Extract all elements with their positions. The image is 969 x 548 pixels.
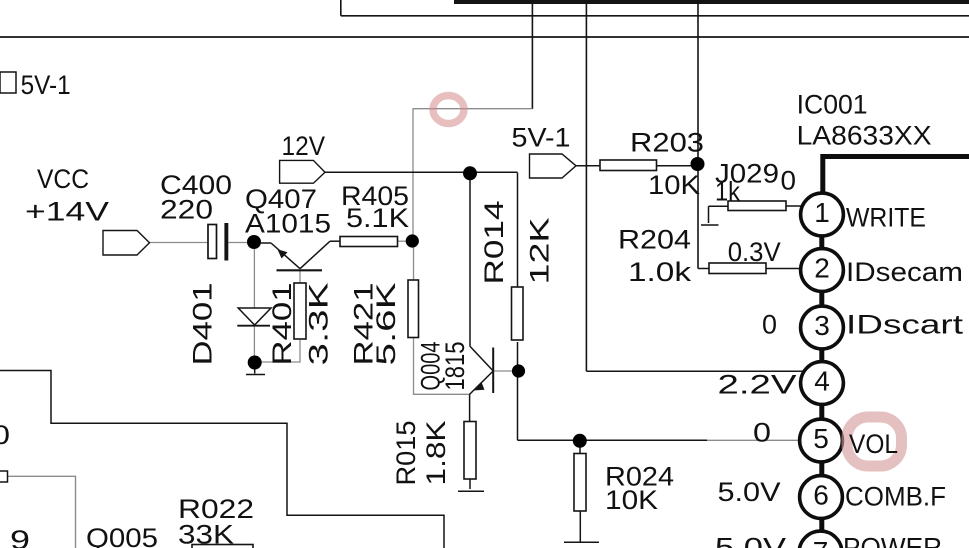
svg-text:5V-1: 5V-1 xyxy=(512,123,571,153)
svg-text:IDscart: IDscart xyxy=(846,310,964,340)
svg-text:0: 0 xyxy=(781,166,797,196)
svg-text:3.3K: 3.3K xyxy=(304,283,334,366)
svg-text:5.0V: 5.0V xyxy=(718,477,781,507)
svg-text:Q005: Q005 xyxy=(86,523,158,548)
svg-text:6: 6 xyxy=(813,480,829,511)
svg-text:A1015: A1015 xyxy=(245,209,331,239)
svg-text:POWER: POWER xyxy=(843,533,942,548)
svg-text:1: 1 xyxy=(814,197,830,228)
svg-text:5.0V: 5.0V xyxy=(715,533,786,548)
svg-text:1k: 1k xyxy=(715,177,740,207)
svg-text:LA8633XX: LA8633XX xyxy=(797,121,932,151)
svg-text:2.2V: 2.2V xyxy=(718,370,797,400)
svg-text:+14V: +14V xyxy=(25,197,109,227)
svg-text:R015: R015 xyxy=(391,421,421,486)
svg-text:R203: R203 xyxy=(630,128,704,158)
svg-text:33K: 33K xyxy=(178,520,234,548)
svg-text:D401: D401 xyxy=(188,283,218,366)
svg-text:5.1K: 5.1K xyxy=(346,203,409,233)
svg-text:4: 4 xyxy=(814,366,830,397)
svg-text:R014: R014 xyxy=(479,201,509,285)
svg-text:1.8K: 1.8K xyxy=(421,421,451,486)
svg-text:0: 0 xyxy=(753,418,771,448)
svg-text:0: 0 xyxy=(0,420,10,450)
svg-text:10K: 10K xyxy=(648,170,700,200)
svg-text:VOL: VOL xyxy=(849,429,898,459)
svg-text:0: 0 xyxy=(762,310,777,340)
svg-text:WRITE: WRITE xyxy=(846,203,926,233)
svg-text:2: 2 xyxy=(814,253,830,284)
svg-text:5V-1: 5V-1 xyxy=(21,70,71,100)
svg-text:R204: R204 xyxy=(618,225,691,255)
svg-text:10K: 10K xyxy=(605,485,658,515)
svg-text:R401: R401 xyxy=(267,283,297,366)
svg-text:5.6K: 5.6K xyxy=(371,283,401,366)
svg-text:1.0k: 1.0k xyxy=(628,257,692,287)
svg-text:12V: 12V xyxy=(282,131,326,161)
svg-text:3: 3 xyxy=(814,310,830,341)
svg-text:0.3V: 0.3V xyxy=(728,237,781,267)
svg-text:IC001: IC001 xyxy=(797,90,868,120)
svg-text:9: 9 xyxy=(10,525,30,548)
svg-text:VCC: VCC xyxy=(37,164,89,194)
svg-text:COMB.F: COMB.F xyxy=(845,482,946,512)
svg-text:7: 7 xyxy=(813,536,829,548)
svg-text:220: 220 xyxy=(160,195,213,225)
svg-text:5: 5 xyxy=(813,423,829,454)
svg-text:12K: 12K xyxy=(525,218,555,285)
svg-text:IDsecam: IDsecam xyxy=(846,257,963,287)
svg-text:1815: 1815 xyxy=(440,342,470,391)
